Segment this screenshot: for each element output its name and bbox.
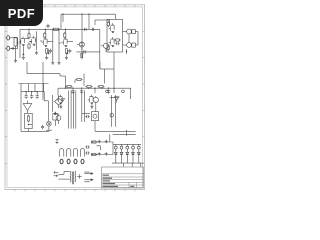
loop L1 on wire [110,114,113,117]
title block outline [102,167,144,188]
wire jack bus [14,38,19,49]
tube socket S2 [66,148,70,163]
resistor R20 [91,153,97,155]
tube socket S3 [73,148,77,163]
wire decouple row [76,29,99,69]
rectifier V6 diamond [55,95,63,108]
wire snubber [75,74,84,87]
triode V5 recovery [23,101,31,114]
capacitor C19 [85,145,89,148]
wire mid coupling run [27,62,65,88]
wire PI box top feed [95,14,116,25]
capacitor C17 bias plus [98,152,101,155]
ground [90,105,93,108]
resistor R18 [91,141,97,143]
tube socket S4 [80,148,84,163]
capacitor C16 [41,125,44,129]
frame zone tick marks left [5,31,7,163]
wire drops to title area [124,163,141,167]
resistor R7 cathode cluster a [46,49,50,56]
capacitor C4 [49,49,52,53]
capacitor C8 [30,94,33,98]
capacitor C13 [85,115,89,118]
resistor R8 cathode cluster b [65,49,68,56]
triode V4 driver [101,43,109,52]
title block text marks [103,175,135,187]
resistor R1 grid stopper [11,47,15,49]
capacitor C5 [68,49,71,53]
capacitor C6 [115,42,119,45]
pilot circle P3 [126,144,129,149]
label pilot lamp [46,130,52,131]
wire tone stack bottom [21,129,49,132]
junction dot pot wiper [28,124,33,125]
wire B+ circles [106,88,131,99]
capacitor C20 [83,28,87,31]
triode V7A [57,95,63,105]
wire tone stack right leg [44,101,48,121]
wire twin verticals right [110,95,118,127]
wire stage row 1 links [25,38,73,43]
wire output tubes link [129,32,138,46]
wire heater cable run [69,91,76,129]
capacitor C7 [25,94,28,98]
diode D6 [132,149,135,163]
title block row lines [102,174,144,185]
PDF file type badge [0,0,43,26]
potentiometer VR1 box [25,113,33,128]
terminal ticks left of bias [56,140,59,145]
resistor R32 cathode follower [81,54,83,58]
pilot lamp DS1 [47,121,52,131]
ground [51,61,54,64]
triode V7B [88,95,94,105]
wire bus hang legs [95,88,114,93]
switch SW1 wire [59,172,70,180]
triode V3B phase inverter [109,37,115,47]
phase inverter box U1 [107,19,123,52]
resistor R10 [107,21,109,27]
triode V1A [19,36,25,46]
resistor R12 [114,39,121,41]
resistor R5 [28,32,30,39]
label AC line lower [84,179,93,182]
wire main B+ bus [58,88,131,89]
ground [59,105,62,108]
resistor R15 [86,85,93,87]
capacitor C14 bias plus [98,140,101,143]
resistor R13 [27,115,29,123]
wire bottom collector [95,130,136,136]
diode D7 [137,149,140,163]
ground [35,51,38,54]
resistor R11 [107,44,109,50]
tube socket S1 [59,148,63,163]
ground [65,56,68,59]
input jack J2 [5,46,13,50]
jack contact box [14,37,17,59]
triode V3A phase inverter [109,23,115,33]
resistor R17 [76,78,83,80]
power transformer T1 [70,171,76,184]
output tube Q2 envelope [123,43,139,48]
diode D4 [120,149,123,163]
output tube Q1 envelope [123,29,139,34]
wire screen node [126,49,127,54]
frame zone tick marks bottom [15,189,135,191]
resistor R30 [44,32,46,39]
wire preamp top bus [20,29,100,61]
ground [22,56,25,59]
wire tone stack top bus [19,84,49,132]
frame zone tick marks top [15,5,135,7]
fuse F1 with line cord marks [54,171,59,177]
resistor R31 [64,32,66,39]
capacitor C21 [91,28,95,31]
triode V10 tremolo [56,114,61,125]
triode V8 reverb driver [93,96,98,112]
pilot circle P5 [137,144,140,149]
drawing frame inner border [7,7,143,187]
pilot circle P4 [132,144,135,149]
triode V2A [42,37,48,47]
wire rectifier top rail [113,143,141,145]
pilot circle P1 [114,144,117,149]
capacitor C1 [46,24,49,28]
resistor R6 [28,43,30,50]
resistor R2 [52,28,60,30]
wire HT top rail [61,14,116,60]
capacitor C9 [36,94,39,98]
capacitor C10 [71,89,74,93]
capacitor C11 [80,89,83,93]
diode D3 [114,149,117,163]
triode V2B2 [62,37,68,47]
diode D5 [126,149,129,163]
triode V2B cathode follower [77,42,84,50]
wire rectifier bottom rail [112,162,144,164]
switch SW2 plus mark [77,174,82,178]
ground [45,56,48,59]
wire pair drop [82,91,90,122]
triode V1B [30,36,36,46]
capacitor C12 [107,89,110,93]
wire bias row lower [92,153,114,156]
ground [14,59,17,62]
title block dividers [129,182,137,188]
wire bias drop [54,120,56,126]
label AC line upper [84,172,93,175]
input jack J1 [5,36,13,40]
resistor R14 [66,85,73,87]
diode D2 arrow mid-right [115,97,120,103]
wire PI feed [100,52,114,88]
relay K1 box with lamp [92,112,99,132]
junction dot V1 cathode [23,47,25,56]
wire bias row upper [92,141,114,144]
ground [57,61,60,64]
capacitor C18 bias plus [105,152,108,155]
capacitor C23 [85,151,89,154]
diode D1 arrow [62,99,65,102]
potentiometer VR2 bias [53,112,58,120]
capacitor C22 [82,50,86,53]
resistor R16 [98,85,105,87]
capacitor C15 bias plus [105,140,108,143]
pilot circle P2 [120,144,123,149]
frame zone tick marks right [143,31,145,163]
drawing frame outer border [5,5,145,190]
wire supply verticals [43,62,58,112]
wire bias block verticals [97,134,114,154]
